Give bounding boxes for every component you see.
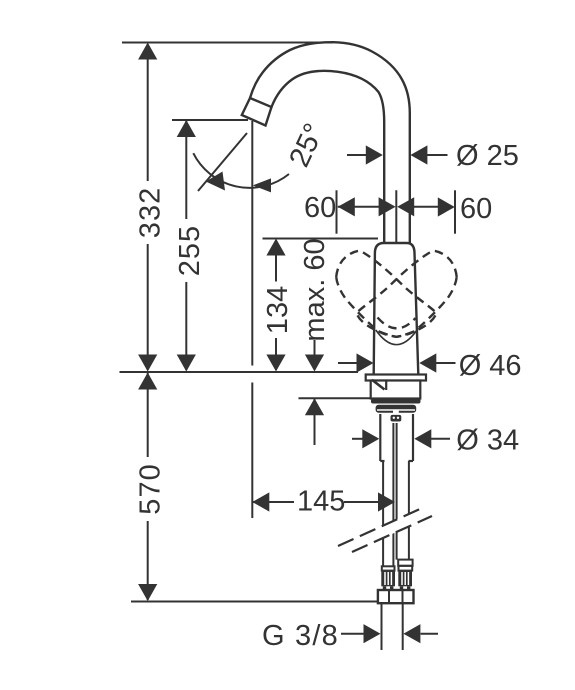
faucet centerline tick: [395, 190, 397, 273]
G38 left extension line: [381, 603, 383, 650]
dimension dia34: [352, 438, 364, 440]
dimension 60 left: [338, 206, 380, 208]
25deg arc arrow at vertical: [253, 178, 271, 192]
svg-text:145: 145: [297, 486, 345, 518]
dimension max60 line: [314, 340, 316, 370]
escutcheon pin vertical: [385, 380, 387, 390]
counter underside reference line: [299, 397, 371, 399]
arrow 255 top: [177, 120, 196, 137]
top reference line (overall height): [122, 42, 333, 44]
lever bottom arc: [376, 330, 417, 345]
svg-text:134: 134: [262, 286, 294, 334]
left hose connector: [381, 566, 395, 590]
arrow 332 bottom: [138, 355, 157, 372]
svg-text:25°: 25°: [283, 119, 331, 172]
arrow 570 bottom: [138, 584, 157, 601]
dimension 145: [252, 501, 294, 503]
arrow 60L right (bowtie): [379, 197, 396, 216]
dimension 570 line: [147, 373, 149, 457]
right hose connector: [398, 560, 412, 590]
svg-text:332: 332: [134, 187, 166, 238]
arrow max60 under-deck up: [305, 398, 324, 415]
o-ring block: [376, 405, 417, 413]
G38 right extension line: [402, 603, 404, 650]
dimension dia25: [347, 154, 367, 156]
dimension G38: [341, 633, 364, 635]
bottom reference line: [131, 601, 378, 603]
dimension 255 line: [185, 121, 187, 219]
arrow dia25 right: [410, 145, 427, 164]
arrow dia34 right: [414, 429, 431, 448]
flange plate: [366, 375, 426, 381]
deck reference line: [120, 371, 359, 373]
hose clip: [391, 415, 402, 422]
body-top reference line: [263, 238, 379, 240]
dimension 60 right: [413, 206, 438, 208]
svg-text:60: 60: [460, 193, 492, 225]
arrow 145 right: [378, 492, 395, 511]
arrow 60R left (bowtie): [397, 197, 414, 216]
svg-text:60: 60: [304, 192, 336, 224]
arrow dia34 left: [362, 429, 379, 448]
arrow 255 bottom: [177, 355, 196, 372]
arrow 145 left: [252, 492, 269, 511]
handle swing left position (dashed petal): [336, 251, 436, 337]
arrow 134 top: [266, 239, 285, 256]
escutcheon body: [371, 381, 421, 399]
handle bottom dashed cap: [378, 318, 416, 329]
escutcheon bottom band: [371, 399, 421, 404]
arrow max60 bottom: [305, 355, 324, 372]
body (handle housing): [374, 243, 419, 375]
shank: [380, 414, 413, 461]
arrow dia25 left: [366, 145, 383, 164]
dimension max60 lower stem: [314, 399, 316, 445]
arrow 332 top: [138, 43, 157, 60]
arrow 60R right: [438, 197, 455, 216]
svg-text:Ø 25: Ø 25: [456, 140, 519, 172]
connector base block: [378, 590, 414, 603]
arrow dia46 right: [419, 353, 436, 372]
angle annotation 25deg: [193, 133, 289, 191]
dimension dia46: [338, 362, 358, 364]
svg-text:G 3/8: G 3/8: [262, 620, 339, 652]
hose break symbol: [338, 508, 432, 552]
svg-text:Ø 34: Ø 34: [456, 425, 519, 457]
25deg arc: [193, 153, 289, 188]
25deg arc arrow on slash: [206, 172, 225, 191]
arrow G38 right: [403, 624, 420, 643]
spout tip vertical reference line: [251, 121, 253, 366]
arrow 134 bottom: [266, 355, 285, 372]
dimension 134 line: [275, 240, 277, 282]
spout outer curve: [250, 42, 410, 243]
svg-text:570: 570: [134, 463, 166, 514]
svg-text:max. 60: max. 60: [299, 238, 331, 341]
handle swing right position (dashed petal): [356, 251, 456, 337]
aerator nose: [242, 98, 272, 126]
arrow dia46 left: [357, 353, 374, 372]
25deg slash line: [198, 133, 247, 191]
supply hoses: [383, 423, 409, 566]
svg-text:255: 255: [174, 225, 206, 276]
spout outline: [250, 42, 410, 243]
arrow G38 left: [364, 624, 381, 643]
escutcheon lever pin: [372, 380, 385, 390]
arrow 60L left: [338, 197, 355, 216]
spout outlet reference line: [172, 119, 248, 121]
svg-text:Ø 46: Ø 46: [459, 350, 522, 382]
dimension 332 line: [147, 44, 149, 181]
spout inner curve: [272, 71, 385, 243]
arrow 570 top: [138, 373, 157, 390]
arrowheads: [138, 43, 455, 644]
